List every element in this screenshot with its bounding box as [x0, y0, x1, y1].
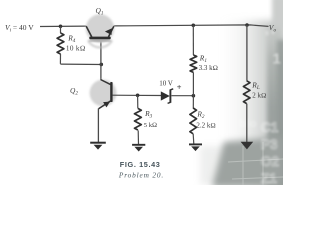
junction : Vi node / R4 top	[59, 25, 63, 29]
svg-text:C1: C1	[261, 120, 279, 135]
svg-text:O2: O2	[261, 154, 279, 169]
label R3 5 kOhm	[144, 109, 157, 129]
label R4 10 kOhm	[66, 33, 86, 52]
resistor R2	[190, 96, 197, 144]
ground : RL (solid arrow style)	[241, 142, 254, 150]
svg-text:FIG. 15.43: FIG. 15.43	[120, 160, 161, 169]
wire : zener cathode to R1/R2 node	[172, 95, 194, 97]
svg-text:10 kΩ: 10 kΩ	[66, 44, 86, 52]
svg-text:+: +	[177, 83, 182, 92]
svg-text:P3: P3	[261, 137, 278, 152]
svg-text:2.2 kΩ: 2.2 kΩ	[196, 122, 215, 130]
junction : Q1 base / Q2 collector node	[100, 63, 104, 67]
junction : R1/R2 divider node	[192, 94, 196, 98]
wire : Q1 base down to Q2 collector	[100, 40, 102, 80]
wire : Vi to Q1 collector	[40, 25, 87, 27]
resistor R3	[134, 95, 141, 144]
ground : R3	[132, 145, 145, 152]
ground : R2	[189, 144, 202, 151]
svg-text:2 kΩ: 2 kΩ	[252, 91, 266, 99]
junction : Q2 base / R3 node	[136, 94, 140, 98]
svg-text:1: 1	[273, 51, 281, 68]
wire : Q2 emitter down to ground	[97, 109, 99, 143]
resistor RL	[243, 81, 250, 142]
svg-text:10 V: 10 V	[159, 80, 173, 88]
transistor Q2	[90, 80, 117, 109]
svg-text:5 kΩ: 5 kΩ	[144, 122, 157, 129]
svg-text:3.3 kΩ: 3.3 kΩ	[199, 64, 218, 72]
junction : RL top node	[245, 23, 249, 27]
wire : R4 bottom to Q1 base node	[60, 63, 101, 65]
svg-text:Vi = 40 V: Vi = 40 V	[5, 23, 34, 33]
junction : R1 top node	[192, 24, 196, 28]
svg-text:Problem 20.: Problem 20.	[118, 170, 164, 179]
resistor R4	[57, 26, 64, 64]
ground : Q2 emitter	[90, 143, 106, 150]
label R2 2.2 kOhm	[196, 110, 215, 130]
wire : RL top from output node	[246, 25, 248, 81]
label R1 3.3 kOhm	[199, 53, 218, 72]
transistor Q1	[86, 14, 114, 47]
resistor R1	[190, 25, 197, 95]
wire : Q2 base to R3 node and zener anode	[113, 94, 162, 96]
svg-text:Z1: Z1	[261, 171, 277, 185]
zener diode 10 V	[161, 89, 173, 104]
label RL 2 kOhm	[251, 81, 266, 100]
svg-text:blo: blo	[239, 118, 257, 130]
wire : Q1 emitter to Vo	[114, 25, 269, 27]
